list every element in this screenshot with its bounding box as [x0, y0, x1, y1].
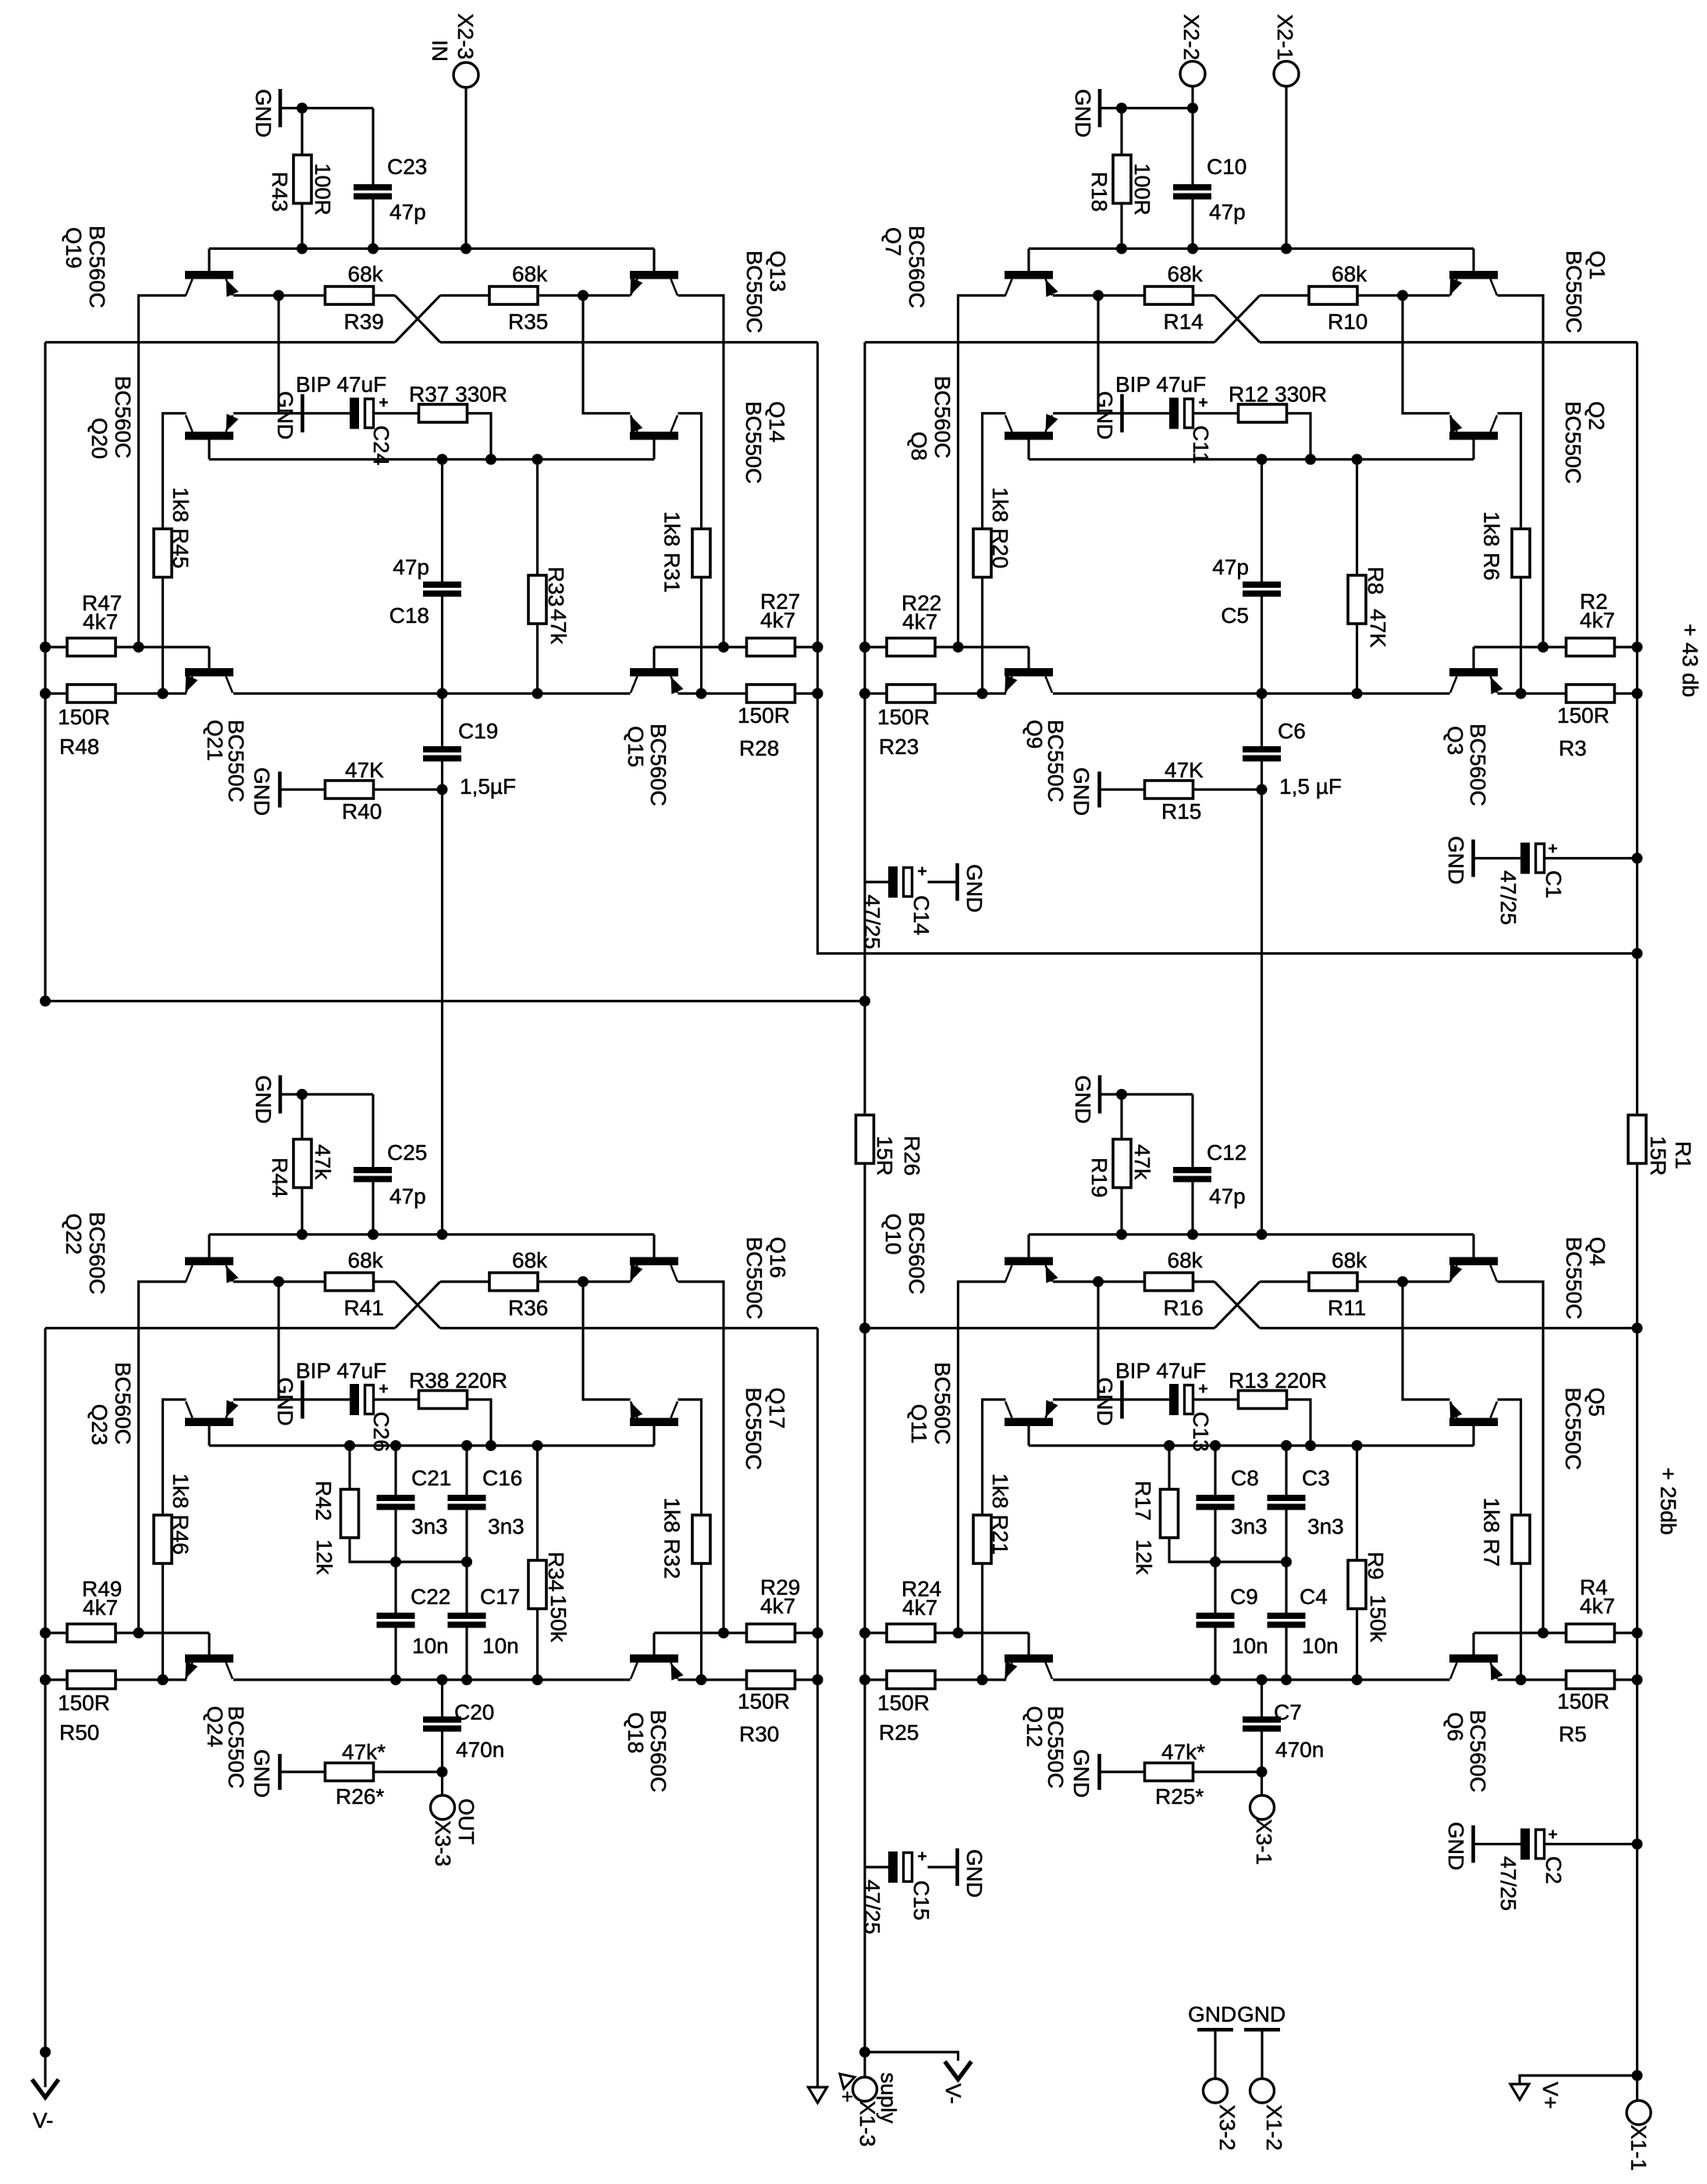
junction: [977, 688, 988, 699]
wire crossing: [1214, 296, 1260, 343]
junction: [485, 1440, 496, 1451]
capacitor C9 10n: [1214, 1562, 1216, 1613]
junction: [1632, 2070, 1643, 2081]
wire base bias: [209, 1444, 654, 1446]
transistor Q5 BC550C: [1449, 1402, 1498, 1446]
wire: [1498, 414, 1521, 529]
svg-text:+ 25db: + 25db: [1656, 1467, 1680, 1535]
svg-text:Q6: Q6: [1443, 1713, 1467, 1741]
capacitor C16 3n3: [465, 1446, 468, 1495]
svg-text:C10: C10: [1207, 155, 1246, 179]
capacitor C4 10n: [1285, 1562, 1287, 1613]
wire: [538, 294, 631, 297]
svg-text:C16: C16: [482, 1466, 522, 1490]
svg-text:R38 220R: R38 220R: [409, 1368, 507, 1393]
svg-text:Q20: Q20: [87, 418, 112, 459]
wire interstage: [441, 790, 443, 1235]
wire left rail of left bottom block: [44, 1329, 46, 2088]
wire top bus: [1029, 1233, 1474, 1236]
svg-text:47k*: 47k*: [1161, 1740, 1205, 1764]
svg-text:4k7: 4k7: [760, 608, 795, 632]
svg-text:R36: R36: [508, 1296, 548, 1320]
transistor Q18 BC560C: [630, 1633, 684, 1681]
ground GND: [1098, 1076, 1102, 1114]
wire left rail of left top block: [44, 343, 46, 1001]
svg-text:3n3: 3n3: [1231, 1514, 1268, 1538]
junction: [1352, 688, 1363, 699]
junction: [718, 1627, 729, 1638]
svg-text:GND: GND: [1444, 836, 1468, 884]
resistor R14 68k: [1053, 294, 1144, 297]
junction: [718, 642, 729, 653]
junction: [390, 1440, 401, 1451]
junction: [1281, 1674, 1292, 1685]
svg-text:Q5: Q5: [1584, 1388, 1609, 1417]
supply V+: [1520, 2076, 1638, 2085]
svg-text:R5: R5: [1559, 1722, 1587, 1746]
capacitor C1 47/25: [1474, 857, 1520, 859]
wire lower bus: [865, 1327, 1214, 1329]
resistor R38 220R: [374, 1398, 419, 1400]
resistor R6 1k8: [1512, 529, 1530, 578]
wire top bus: [209, 1233, 654, 1236]
capacitor C10 47p: [1191, 108, 1193, 185]
svg-text:R35: R35: [508, 310, 548, 334]
svg-text:47p: 47p: [1209, 200, 1246, 224]
resistor R33 47k: [536, 460, 539, 576]
svg-text:12k: 12k: [312, 1539, 336, 1575]
wire: [1403, 296, 1450, 414]
svg-text:X1-1: X1-1: [1627, 2125, 1651, 2171]
svg-text:R23: R23: [879, 735, 919, 759]
wire: [1097, 1282, 1099, 1400]
svg-text:Q21: Q21: [203, 720, 227, 761]
svg-text:IN: IN: [428, 40, 452, 62]
svg-text:1k8 R7: 1k8 R7: [1480, 1498, 1504, 1567]
junction: [1281, 1556, 1292, 1567]
capacitor C24 BIP 47uF: [350, 398, 359, 429]
svg-text:R33: R33: [544, 567, 568, 606]
junction: [297, 1229, 308, 1240]
junction: [1632, 1839, 1643, 1850]
svg-text:BC550C: BC550C: [224, 720, 248, 802]
connector X3-3 OUT: [441, 1772, 443, 1795]
wire: [467, 414, 491, 460]
resistor R16 68k: [1053, 1280, 1144, 1282]
capacitor C19 1,5µF: [441, 694, 443, 747]
transistor Q14 BC550C: [630, 415, 678, 460]
capacitor C21 3n3: [394, 1446, 397, 1495]
junction: [1352, 1440, 1363, 1451]
svg-text:150k: 150k: [546, 1595, 571, 1643]
svg-text:C14: C14: [909, 895, 934, 935]
svg-text:BC560C: BC560C: [1466, 724, 1490, 806]
resistor R10 68k: [1193, 294, 1214, 297]
junction: [859, 688, 870, 699]
junction: [859, 996, 870, 1007]
resistor R24 4k7: [865, 1631, 887, 1634]
svg-text:BIP 47uF: BIP 47uF: [296, 372, 386, 397]
svg-text:10n: 10n: [482, 1634, 519, 1658]
wire: [1357, 294, 1450, 297]
junction: [1352, 1674, 1363, 1685]
ground GND: [1053, 412, 1169, 414]
ground GND: [1098, 89, 1102, 127]
svg-text:47/25: 47/25: [860, 895, 884, 949]
transistor Q20 BC560C: [185, 414, 239, 459]
junction: [158, 1674, 169, 1685]
svg-text:150R: 150R: [877, 1691, 930, 1715]
svg-text:68k: 68k: [512, 262, 548, 286]
junction: [813, 1627, 823, 1638]
wire: [163, 414, 187, 529]
svg-text:Q9: Q9: [1022, 720, 1047, 749]
junction: [1397, 1276, 1408, 1287]
wire: [277, 296, 279, 414]
junction: [953, 1627, 964, 1638]
capacitor C13 BIP 47uF: [1169, 1384, 1179, 1415]
ground GND: [1471, 840, 1475, 877]
resistor R26* 47k*: [282, 1770, 325, 1773]
svg-text:68k: 68k: [512, 1248, 548, 1272]
svg-text:47K: 47K: [1366, 609, 1390, 648]
resistor R39 68k: [233, 294, 325, 297]
svg-text:150k: 150k: [1366, 1595, 1390, 1643]
svg-text:C21: C21: [411, 1466, 451, 1490]
junction: [273, 290, 284, 301]
svg-text:47k: 47k: [1130, 1144, 1154, 1180]
svg-text:GND: GND: [1069, 1749, 1094, 1798]
svg-text:Q10: Q10: [881, 1214, 905, 1255]
junction: [1116, 103, 1127, 114]
capacitor C11 BIP 47uF: [1169, 398, 1179, 429]
svg-text:C22: C22: [411, 1585, 450, 1609]
svg-text:R11: R11: [1328, 1296, 1366, 1320]
svg-text:Q17: Q17: [765, 1388, 789, 1429]
wire: [233, 1678, 631, 1681]
svg-text:V-: V-: [941, 2083, 966, 2104]
junction: [1093, 290, 1104, 301]
svg-text:R8: R8: [1364, 567, 1388, 595]
svg-text:C1: C1: [1542, 870, 1566, 898]
wire: [583, 1282, 631, 1400]
resistor R13 220R: [1193, 1398, 1239, 1400]
svg-text:GND: GND: [1071, 89, 1095, 137]
connector X1-2: [1250, 2079, 1275, 2103]
wire right rail of left top block: [818, 343, 1638, 954]
resistor R7 1k8: [1512, 1515, 1530, 1563]
resistor R4 4k7: [1474, 1631, 1567, 1634]
wire node crossover: [45, 1000, 865, 1002]
resistor R48 150R: [45, 692, 67, 695]
wire: [163, 1400, 187, 1515]
junction: [953, 642, 964, 653]
junction: [1397, 290, 1408, 301]
resistor R5 150R: [1498, 1678, 1567, 1681]
ground GND: [1097, 772, 1101, 808]
wire: [1498, 296, 1544, 648]
svg-text:GND: GND: [1237, 2002, 1286, 2026]
svg-text:BC550C: BC550C: [1562, 251, 1586, 333]
resistor R29 4k7: [654, 1631, 747, 1634]
junction: [437, 1766, 448, 1777]
svg-text:R43: R43: [268, 172, 292, 212]
wire crossing: [395, 1282, 440, 1329]
svg-text:R10: R10: [1328, 310, 1367, 334]
transistor Q17 BC550C: [630, 1402, 678, 1446]
svg-text:BC560C: BC560C: [111, 376, 135, 459]
junction: [977, 1674, 988, 1685]
svg-text:BIP 47uF: BIP 47uF: [1115, 372, 1206, 397]
resistor R49 4k7: [45, 1631, 67, 1634]
junction: [977, 688, 988, 699]
resistor R15 47K: [1101, 788, 1145, 791]
junction: [461, 1556, 472, 1567]
junction: [1516, 1674, 1527, 1685]
wire top bus: [1029, 247, 1474, 250]
junction: [40, 642, 51, 653]
wire interstage: [1261, 790, 1263, 1235]
svg-text:4k7: 4k7: [83, 1595, 118, 1620]
supply V-: [865, 2052, 958, 2061]
resistor R36 68k: [374, 1280, 395, 1282]
svg-text:47/25: 47/25: [1496, 1856, 1520, 1911]
svg-text:R9: R9: [1364, 1552, 1388, 1580]
resistor R44 47k: [301, 1094, 303, 1139]
transistor Q23 BC560C: [185, 1400, 239, 1446]
connector X2-1: [1274, 62, 1299, 87]
svg-text:68k: 68k: [1168, 1248, 1204, 1272]
junction: [1257, 1674, 1268, 1685]
junction: [1538, 1627, 1549, 1638]
svg-text:R26: R26: [900, 1136, 924, 1176]
svg-text:R28: R28: [739, 736, 779, 760]
resistor R21 1k8: [973, 1515, 991, 1563]
svg-text:R14: R14: [1164, 310, 1204, 334]
svg-text:R19: R19: [1087, 1158, 1111, 1197]
resistor R17 12k: [1168, 1446, 1170, 1489]
svg-text:R44: R44: [268, 1158, 292, 1197]
svg-text:X2-3: X2-3: [453, 13, 478, 59]
svg-text:BC560C: BC560C: [646, 724, 670, 806]
svg-text:1,5 µF: 1,5 µF: [1279, 774, 1342, 799]
svg-text:C6: C6: [1278, 719, 1306, 743]
svg-text:GND: GND: [250, 767, 274, 816]
transistor Q7 BC560C: [1005, 249, 1058, 297]
transistor Q6 BC560C: [1449, 1633, 1503, 1681]
ground GND: [928, 1866, 958, 1868]
svg-text:68k: 68k: [348, 262, 384, 286]
resistor R40 47K: [282, 788, 325, 791]
svg-text:BIP 47uF: BIP 47uF: [296, 1359, 386, 1383]
resistor R45 1k8: [154, 529, 172, 578]
svg-text:BC560C: BC560C: [646, 1710, 670, 1793]
wire: [467, 1400, 491, 1446]
transistor Q16 BC550C: [630, 1235, 678, 1282]
svg-text:150R: 150R: [738, 1689, 790, 1713]
svg-text:68k: 68k: [1332, 262, 1367, 286]
svg-text:BC560C: BC560C: [111, 1362, 135, 1445]
junction: [461, 1440, 472, 1451]
resistor R46 1k8: [154, 1515, 172, 1563]
capacitor C26 BIP 47uF: [350, 1384, 359, 1415]
svg-text:X2-1: X2-1: [1273, 14, 1297, 60]
svg-text:1k8 R45: 1k8 R45: [169, 487, 193, 568]
connector X2-3 IN: [453, 62, 478, 87]
junction: [437, 454, 448, 465]
svg-text:R50: R50: [59, 1720, 99, 1745]
svg-text:C15: C15: [909, 1880, 934, 1920]
svg-text:47p: 47p: [1209, 1184, 1246, 1208]
svg-text:Q14: Q14: [765, 401, 789, 443]
svg-text:15R: 15R: [1646, 1136, 1670, 1176]
svg-text:Q18: Q18: [624, 1713, 648, 1754]
junction: [1116, 1229, 1127, 1240]
junction: [1632, 1674, 1643, 1685]
resistor R25 150R: [865, 1678, 887, 1681]
resistor R42 12k: [348, 1446, 350, 1489]
svg-text:1k8 R6: 1k8 R6: [1480, 511, 1504, 581]
wire: [983, 1400, 1006, 1515]
wire: [678, 296, 724, 648]
resistor R25* 47k*: [1101, 1770, 1145, 1773]
ground GND: [1471, 1826, 1475, 1863]
capacitor C5 47p: [1261, 460, 1263, 582]
svg-text:OUT: OUT: [454, 1798, 478, 1844]
junction: [1116, 1089, 1127, 1100]
svg-text:BC550C: BC550C: [224, 1706, 248, 1789]
svg-text:R25: R25: [879, 1720, 919, 1745]
capacitor C2 47/25: [1474, 1843, 1520, 1845]
svg-text:Q4: Q4: [1585, 1237, 1609, 1266]
transistor Q21 BC550C: [185, 647, 233, 693]
svg-text:Q12: Q12: [1022, 1706, 1047, 1748]
svg-text:R16: R16: [1164, 1296, 1204, 1320]
resistor R8 47K: [1356, 460, 1358, 576]
svg-text:47p: 47p: [393, 555, 429, 579]
wire: [1101, 107, 1193, 109]
junction: [40, 688, 51, 699]
connector X3-1: [1261, 1772, 1263, 1795]
svg-text:GND: GND: [273, 391, 297, 439]
svg-text:1k8 R32: 1k8 R32: [660, 1498, 685, 1579]
wire: [678, 414, 702, 529]
wire: [1498, 1282, 1544, 1633]
svg-text:BC550C: BC550C: [741, 1388, 766, 1471]
junction: [1116, 244, 1127, 254]
junction: [813, 688, 823, 699]
svg-text:BC560C: BC560C: [905, 226, 929, 308]
capacitor C14 47/25: [865, 880, 888, 883]
svg-text:C3: C3: [1302, 1466, 1330, 1490]
svg-text:V+: V+: [1538, 2082, 1563, 2109]
junction: [461, 1674, 472, 1685]
svg-text:X1-2: X1-2: [1262, 2104, 1286, 2150]
svg-text:R13 220R: R13 220R: [1229, 1368, 1327, 1393]
svg-text:GND: GND: [1093, 391, 1117, 439]
junction: [461, 244, 471, 254]
junction: [532, 454, 543, 465]
junction: [344, 1440, 355, 1451]
wire top bus: [209, 247, 654, 250]
svg-text:GND: GND: [250, 1749, 274, 1798]
transistor Q10 BC560C: [1005, 1235, 1058, 1283]
wire: [277, 1282, 279, 1400]
wire: [983, 414, 1006, 529]
svg-text:C17: C17: [480, 1585, 520, 1609]
svg-text:GND: GND: [1188, 2002, 1236, 2026]
wire: [139, 296, 187, 648]
svg-text:Q1: Q1: [1585, 251, 1609, 279]
svg-text:150R: 150R: [1557, 703, 1609, 727]
wire: [1357, 1280, 1450, 1282]
junction: [1187, 103, 1198, 114]
ground GND: [928, 880, 958, 883]
junction: [1305, 454, 1316, 465]
svg-text:GND: GND: [1071, 1076, 1095, 1124]
svg-text:C9: C9: [1230, 1585, 1258, 1609]
svg-text:150R: 150R: [738, 703, 790, 727]
resistor R9 150k: [1356, 1446, 1358, 1560]
svg-text:BC550C: BC550C: [1044, 720, 1068, 802]
svg-text:10n: 10n: [1232, 1634, 1268, 1658]
svg-text:47/25: 47/25: [1496, 870, 1520, 925]
svg-text:X1-3: X1-3: [855, 2100, 880, 2147]
junction: [1352, 454, 1363, 465]
svg-text:GND: GND: [962, 1849, 987, 1898]
wire: [1215, 1560, 1286, 1563]
svg-text:BIP 47uF: BIP 47uF: [1115, 1359, 1206, 1383]
junction: [133, 642, 144, 653]
wire lower bus: [865, 341, 1214, 343]
wire lower bus: [45, 341, 395, 343]
junction: [1516, 688, 1527, 699]
junction: [1257, 688, 1268, 699]
svg-text:BC560C: BC560C: [1466, 1710, 1490, 1793]
svg-text:Q11: Q11: [907, 1404, 931, 1444]
svg-text:47K: 47K: [1165, 758, 1204, 782]
transistor Q2 BC550C: [1449, 415, 1498, 460]
junction: [813, 1674, 823, 1685]
svg-text:BC550C: BC550C: [1561, 1388, 1585, 1471]
junction: [158, 688, 169, 699]
wire: [1053, 1678, 1450, 1681]
svg-text:BC550C: BC550C: [1044, 1706, 1068, 1789]
svg-text:R42: R42: [311, 1481, 336, 1521]
svg-text:C11: C11: [1189, 425, 1213, 464]
junction: [437, 1229, 448, 1240]
svg-text:47k*: 47k*: [342, 1740, 386, 1764]
transistor Q1 BC550C: [1449, 249, 1498, 296]
junction: [696, 688, 707, 699]
resistor R27 4k7: [654, 646, 747, 648]
svg-text:+: +: [841, 2085, 853, 2108]
wire lower bus: [45, 1327, 395, 1329]
svg-text:BC550C: BC550C: [742, 1237, 766, 1320]
junction: [859, 1674, 870, 1685]
resistor R35 68k: [374, 294, 395, 297]
junction: [158, 1674, 169, 1685]
svg-text:150R: 150R: [58, 705, 110, 729]
svg-text:1,5µF: 1,5µF: [460, 774, 516, 799]
junction: [1210, 1440, 1221, 1451]
svg-text:R40: R40: [342, 799, 382, 823]
junction: [1093, 1276, 1104, 1287]
resistor R32 1k8: [692, 1515, 710, 1563]
svg-text:C23: C23: [387, 155, 427, 179]
junction: [390, 1674, 401, 1685]
junction: [1164, 1440, 1175, 1451]
